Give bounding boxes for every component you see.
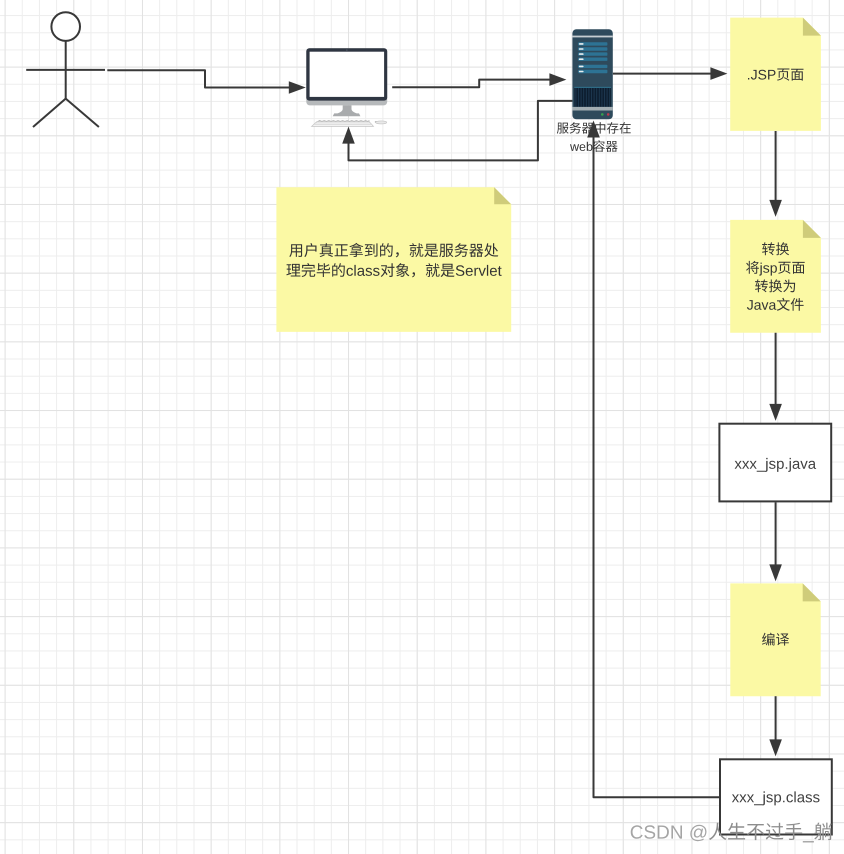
monitor (client computer U1) — [306, 48, 387, 126]
watermark: CSDN @人生不过手_躺 — [631, 823, 832, 843]
wire W8: class box return to server — [594, 137, 720, 797]
wire W3: server to JSP page note — [613, 73, 712, 75]
note N3: 编译 — [730, 583, 820, 696]
wire W6: java box to compile note — [775, 502, 777, 565]
actor (user stick figure) — [26, 12, 105, 127]
box B2: xxx_jsp.class — [720, 759, 832, 834]
wire W7: compile note to class box — [775, 696, 777, 740]
wire W1: actor to monitor — [107, 70, 291, 87]
server label: 服务器中存在 web容器 — [557, 122, 631, 152]
note N1: .JSP页面 — [730, 18, 821, 131]
server (web container tower) — [572, 29, 612, 119]
wire W5: convert note to java file box — [775, 333, 777, 405]
note N2: 转换/将jsp页面/转换为/Java文件 — [730, 220, 821, 333]
wire W4: JSP note to convert note — [775, 131, 777, 201]
box B1: xxx_jsp.java — [719, 424, 831, 502]
wire W2: monitor to server — [392, 80, 551, 88]
wire W9: server return to monitor — [349, 101, 573, 160]
note N4: explanation 用户真正拿到的... — [276, 187, 511, 332]
